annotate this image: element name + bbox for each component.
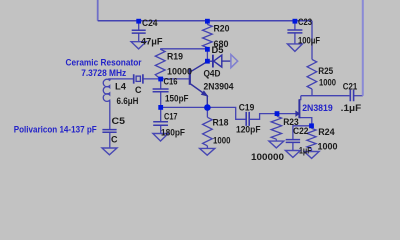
wire top supply rail	[98, 20, 312, 22]
capacitor C5	[102, 130, 116, 133]
svg-text:Ceramic Resonator: Ceramic Resonator	[66, 58, 142, 69]
label Q4D	[204, 68, 221, 78]
wire emitter rail	[161, 106, 208, 108]
annotation 2N3819	[302, 103, 333, 114]
node junction top rail R20	[205, 19, 210, 24]
output port triangle at D5	[231, 55, 238, 68]
svg-text:Polivaricon 14-137 pF: Polivaricon 14-137 pF	[14, 124, 97, 135]
resistor R25	[307, 59, 317, 89]
svg-text:C19: C19	[239, 102, 255, 112]
label 120pF	[236, 124, 261, 134]
svg-text:6.6μH: 6.6μH	[117, 96, 139, 106]
ground below R18	[200, 148, 215, 155]
label R24	[318, 127, 335, 137]
label 2N3904	[204, 81, 234, 91]
label 6.6uH	[117, 96, 139, 106]
label 1000 R24	[318, 142, 338, 152]
ground below C17	[153, 134, 168, 142]
svg-text:120pF: 120pF	[236, 124, 261, 134]
svg-text:C21: C21	[343, 82, 358, 92]
label C22	[293, 126, 309, 136]
svg-text:100000: 100000	[251, 152, 284, 162]
resistor R23	[271, 116, 281, 139]
node junction D5 anode collector	[205, 59, 210, 64]
ground below R23	[269, 141, 284, 148]
ground below C23	[287, 44, 302, 52]
wire JFET source lead	[299, 118, 311, 126]
label 10000	[167, 67, 192, 77]
node junction R20-R19	[205, 47, 210, 52]
svg-text:C23: C23	[298, 17, 312, 27]
label C19	[239, 102, 255, 112]
svg-text:R24: R24	[318, 127, 335, 137]
diode D5	[207, 55, 230, 68]
label 100000	[251, 152, 284, 162]
node junction emitter	[204, 104, 211, 111]
wire R18 leads	[206, 108, 208, 149]
node junction C16 C17	[158, 105, 163, 110]
svg-text:L4: L4	[115, 81, 126, 91]
svg-text:180pF: 180pF	[161, 128, 185, 138]
svg-text:1000: 1000	[319, 77, 336, 87]
wire rail corner down to R25	[311, 21, 313, 60]
svg-text:C5: C5	[112, 116, 126, 126]
ceramic resonator X1	[134, 74, 143, 83]
node junction top rail C24	[136, 19, 141, 24]
svg-text:Q4D: Q4D	[204, 68, 221, 78]
wire resonator right lead to node	[143, 78, 160, 80]
svg-text:1μF: 1μF	[299, 146, 312, 156]
capacitor C22	[286, 140, 300, 143]
resistor R20	[203, 24, 213, 47]
label C below resonator	[135, 85, 142, 95]
label 1uF	[299, 146, 312, 156]
svg-text:150pF: 150pF	[165, 93, 189, 103]
wire source node to C22	[293, 126, 312, 140]
label R20	[214, 24, 230, 34]
annotation Polivaricon	[14, 124, 97, 135]
label 150pF	[165, 93, 189, 103]
resistor R19	[155, 49, 165, 79]
capacitor C23	[287, 30, 302, 33]
wire C19 to gate node	[250, 114, 277, 120]
wire gate node to JFET gate	[277, 113, 296, 115]
resistor R18	[203, 117, 213, 146]
wire JFET drain lead	[299, 96, 300, 100]
capacitor C19	[246, 112, 249, 126]
wire emitter node to C19	[207, 107, 245, 119]
annotation Ceramic Resonator	[66, 58, 142, 69]
wire C17 to ground	[160, 125, 162, 133]
wire C16 to C17 node	[160, 92, 162, 122]
wire C24 leads	[138, 21, 140, 42]
label C5	[112, 116, 126, 126]
label C16	[164, 76, 178, 86]
label .1uF	[341, 103, 362, 113]
svg-text:C24: C24	[142, 18, 158, 28]
label R18	[213, 117, 229, 127]
capacitor C16	[153, 89, 169, 92]
annotation 7.3728 MHz	[81, 68, 126, 79]
label 180pF	[161, 128, 185, 138]
svg-text:R19: R19	[167, 52, 183, 62]
svg-text:47μF: 47μF	[141, 36, 163, 46]
inductor L4	[103, 79, 110, 102]
label R23	[283, 117, 299, 127]
svg-text:R18: R18	[213, 117, 229, 127]
svg-text:1000: 1000	[213, 136, 231, 146]
transistor U1 JFET 2N3819	[296, 99, 300, 118]
wire resonator left lead	[108, 78, 133, 80]
label 47uF	[141, 36, 163, 46]
label 1000 R25	[319, 77, 336, 87]
wire C22 to ground	[292, 142, 294, 150]
label R25	[318, 66, 333, 76]
svg-text:R25: R25	[318, 66, 333, 76]
wire C23 leads	[294, 21, 296, 44]
capacitor C24	[132, 30, 146, 33]
wire R24 leads	[311, 126, 313, 152]
ground below C24	[131, 42, 146, 49]
wire R23 leads	[275, 114, 278, 142]
label C below C5	[111, 134, 118, 144]
svg-text:.1μF: .1μF	[341, 103, 362, 113]
svg-text:2N3904: 2N3904	[204, 81, 234, 91]
resistor R24	[307, 128, 316, 148]
wire R20 leads and node link	[206, 21, 208, 61]
svg-text:10000: 10000	[167, 67, 192, 77]
label 1000 R18	[213, 136, 231, 146]
svg-text:C22: C22	[293, 126, 309, 136]
wire node to C16	[160, 79, 162, 89]
capacitor C21	[350, 90, 353, 102]
label L4	[115, 81, 126, 91]
svg-text:100μF: 100μF	[298, 36, 320, 46]
ground below C5	[102, 148, 117, 155]
label C17	[164, 112, 178, 122]
wire L4 to C5	[109, 101, 111, 129]
transistor Q4 2N3904	[190, 62, 208, 108]
svg-text:C: C	[111, 134, 118, 144]
svg-text:D5: D5	[212, 45, 224, 55]
node junction top rail C23	[293, 19, 298, 24]
wire R19 top to node	[160, 48, 207, 50]
label C23	[298, 17, 312, 27]
label D5	[212, 45, 224, 55]
svg-text:7.3728 MHz: 7.3728 MHz	[81, 68, 126, 79]
label 680	[214, 39, 229, 49]
capacitor C17	[153, 122, 168, 125]
svg-text:C16: C16	[164, 76, 178, 86]
node junction gate R23	[275, 111, 280, 116]
svg-text:C: C	[135, 85, 142, 95]
wire vertical top-left feed	[97, 0, 99, 21]
wire R25 bottom to drain rail	[301, 89, 350, 96]
label 100uF	[298, 36, 320, 46]
label C24	[142, 18, 158, 28]
svg-text:R20: R20	[214, 24, 230, 34]
wire C21 right lead	[354, 95, 363, 97]
node junction source R24 C22	[309, 123, 314, 128]
svg-text:2N3819: 2N3819	[302, 103, 333, 114]
svg-text:C17: C17	[164, 112, 178, 122]
label R19	[167, 52, 183, 62]
label C21	[343, 82, 358, 92]
ground below C22	[285, 151, 300, 158]
wire C5 to ground	[109, 132, 111, 148]
wire long vertical output right	[362, 0, 364, 96]
node junction resonator base	[158, 77, 163, 82]
ground below R24	[304, 152, 319, 159]
svg-text:1000: 1000	[318, 142, 338, 152]
wire base lead Q4	[161, 78, 190, 80]
